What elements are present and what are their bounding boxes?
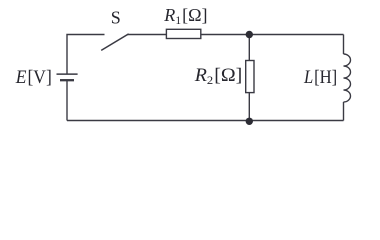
resistor R2 body — [246, 61, 254, 93]
svg-text:E[V]: E[V] — [15, 67, 52, 88]
node: bottom junction dot — [246, 118, 253, 125]
wire: left vertical below battery — [66, 80, 68, 120]
svg-text:R1[Ω]: R1[Ω] — [163, 5, 207, 27]
battery E long plate (+) — [57, 73, 78, 75]
inductor L coil (4 arcs) — [344, 54, 351, 102]
wire: R2 branch bottom lead — [248, 93, 250, 121]
wire: R1 right lead to top-right corner — [201, 34, 344, 36]
wire: bottom rail — [67, 120, 344, 122]
svg-text:S: S — [111, 7, 121, 27]
wire: R2 branch top lead — [248, 35, 250, 61]
svg-text:L[H]: L[H] — [303, 67, 337, 88]
wire: switch right contact to R1 left lead — [128, 34, 167, 36]
node: top junction dot — [246, 31, 253, 38]
resistor R1 body — [166, 29, 200, 38]
switch S blade — [101, 34, 128, 51]
svg-text:R2[Ω]: R2[Ω] — [194, 65, 243, 87]
wire: right vertical bottom segment — [343, 102, 345, 121]
wire: top-left segment from corner to switch left contact — [67, 34, 105, 74]
battery E short plate (-) — [60, 79, 74, 81]
wire: right vertical top segment to inductor — [343, 35, 345, 55]
